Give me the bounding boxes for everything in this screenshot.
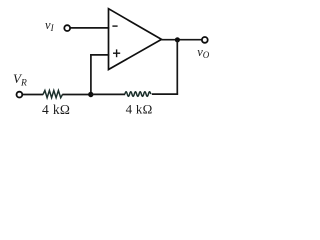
wire: plus input horizontal [90, 54, 109, 56]
wire: op-amp output to vO terminal [161, 39, 201, 41]
wire: VR to resistor R1 [23, 94, 44, 96]
junction dot at output node [175, 37, 180, 42]
op-amp minus sign [112, 25, 117, 27]
wire: plus input vertical down to bottom node [90, 54, 92, 94]
wire: feedback vertical from output node [176, 40, 178, 95]
wire: bottom node to resistor R2 [91, 93, 125, 95]
svg-text:4 kΩ: 4 kΩ [42, 102, 70, 117]
terminal vI [64, 25, 70, 31]
op-amp plus sign [113, 52, 120, 54]
wire: R2 to right feedback corner [152, 93, 178, 95]
op-amp U1 [109, 9, 162, 70]
resistor R2 4 kOhm [125, 92, 151, 97]
resistor R1 4 kOhm [43, 91, 63, 98]
terminal vO [202, 37, 208, 43]
wire: vI terminal to inverting input [70, 27, 109, 29]
terminal VR [17, 92, 23, 98]
wire: R1 to bottom node [62, 94, 91, 96]
junction dot at plus-input node [88, 92, 93, 97]
svg-text:4 kΩ: 4 kΩ [126, 102, 153, 117]
